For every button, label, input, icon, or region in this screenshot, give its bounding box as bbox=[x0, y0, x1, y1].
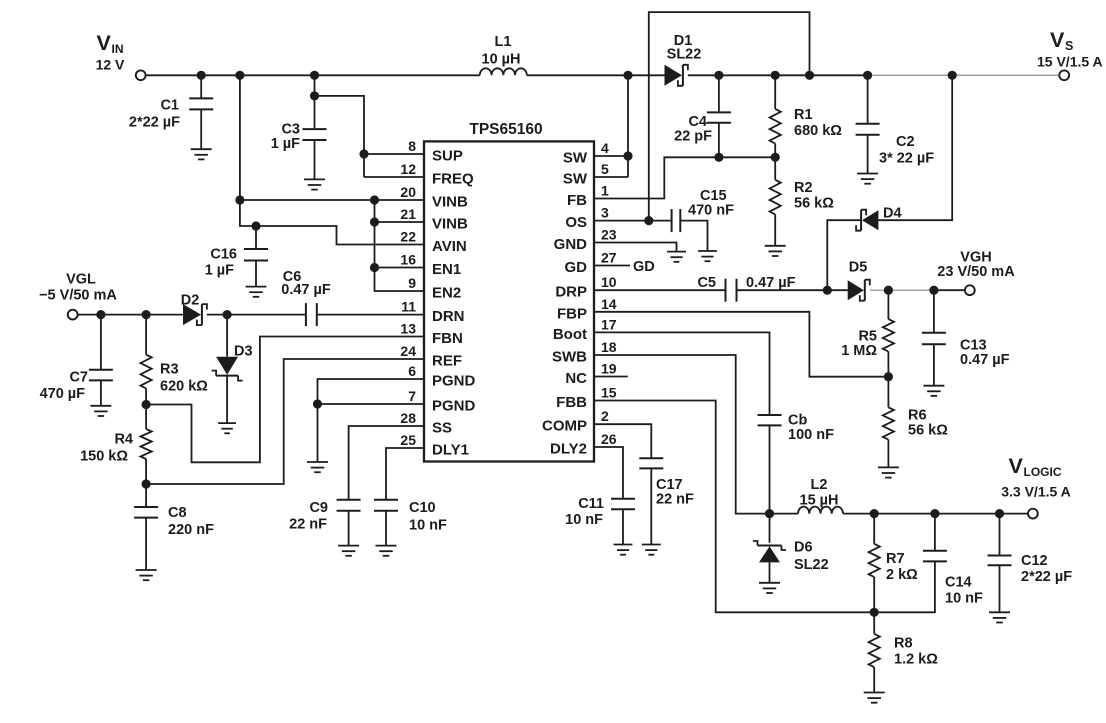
svg-text:15: 15 bbox=[601, 385, 617, 401]
diode D6 SL22 bbox=[753, 514, 829, 583]
wire DRP pin 10 to C5 bbox=[594, 289, 726, 291]
svg-text:DLY2: DLY2 bbox=[550, 441, 587, 458]
svg-text:FB: FB bbox=[567, 192, 587, 209]
ground under D3 bbox=[218, 423, 236, 433]
svg-text:10 µH: 10 µH bbox=[482, 52, 521, 68]
diode D3 bbox=[212, 315, 253, 424]
svg-text:9: 9 bbox=[408, 275, 416, 291]
svg-text:22 nF: 22 nF bbox=[656, 492, 694, 508]
wire D5 to VGH (gray segment) bbox=[870, 286, 965, 295]
resistor R7 bbox=[869, 514, 919, 613]
wire OS pin 3 to C15 bbox=[594, 216, 672, 225]
wire SS pin 28 to C9 bbox=[349, 426, 424, 500]
svg-text:10 nF: 10 nF bbox=[945, 591, 983, 607]
svg-text:12 V: 12 V bbox=[96, 56, 125, 72]
svg-text:DRN: DRN bbox=[432, 308, 465, 325]
svg-text:18: 18 bbox=[601, 339, 617, 355]
svg-text:TPS65160: TPS65160 bbox=[469, 121, 542, 138]
svg-text:V: V bbox=[1009, 454, 1024, 478]
svg-text:SL22: SL22 bbox=[794, 557, 829, 573]
svg-text:21: 21 bbox=[400, 206, 416, 222]
svg-text:D5: D5 bbox=[849, 260, 868, 276]
svg-text:15 µH: 15 µH bbox=[800, 493, 839, 509]
capacitor C2 bbox=[856, 75, 935, 173]
svg-text:L2: L2 bbox=[811, 477, 828, 493]
svg-text:SW: SW bbox=[563, 150, 588, 167]
svg-text:DLY1: DLY1 bbox=[432, 442, 469, 459]
diode D2 bbox=[181, 293, 207, 326]
ground under R2 bbox=[765, 246, 786, 256]
svg-text:NC: NC bbox=[565, 370, 587, 387]
ground under C11 bbox=[614, 545, 633, 555]
svg-text:150 kΩ: 150 kΩ bbox=[80, 449, 128, 465]
ground under PGND bbox=[307, 462, 328, 472]
node VLOGIC output terminal bbox=[1001, 454, 1071, 519]
wire Boot pin 17 to Cb bbox=[594, 332, 770, 415]
svg-text:15 V/1.5 A: 15 V/1.5 A bbox=[1037, 53, 1103, 69]
capacitor C16 bbox=[205, 226, 268, 287]
wire L2 to VLOGIC terminal bbox=[843, 509, 1028, 518]
pin NC stub bbox=[594, 376, 628, 378]
svg-text:2*22 µF: 2*22 µF bbox=[1021, 569, 1072, 585]
resistor R3 bbox=[141, 315, 209, 405]
svg-text:D2: D2 bbox=[181, 293, 200, 309]
ground under C15 bbox=[698, 251, 717, 261]
svg-text:7: 7 bbox=[408, 388, 416, 404]
wire SW pins to top rail bbox=[594, 75, 633, 177]
capacitor C5 bbox=[697, 275, 795, 302]
wire DLY2 pin 26 to C11 bbox=[594, 447, 623, 499]
capacitor C9 bbox=[289, 500, 360, 546]
svg-text:17: 17 bbox=[601, 316, 617, 332]
pin GD stub bbox=[594, 259, 655, 275]
svg-text:IN: IN bbox=[112, 42, 124, 56]
svg-text:28: 28 bbox=[400, 410, 416, 426]
wire top rail VIN to L1 bbox=[146, 74, 480, 76]
svg-text:R3: R3 bbox=[160, 362, 179, 378]
node R4/C8 junction bbox=[142, 479, 151, 488]
svg-text:16: 16 bbox=[400, 252, 416, 268]
svg-text:EN2: EN2 bbox=[432, 285, 461, 302]
svg-text:26: 26 bbox=[601, 431, 617, 447]
svg-text:GD: GD bbox=[565, 259, 588, 276]
svg-text:20: 20 bbox=[400, 184, 416, 200]
svg-text:11: 11 bbox=[401, 299, 416, 315]
wire FBB pin 15 to divider bbox=[594, 401, 935, 613]
svg-text:27: 27 bbox=[601, 250, 617, 266]
resistor R1 bbox=[770, 75, 843, 157]
wire top rail C2 node to Vs (gray) bbox=[868, 74, 1060, 76]
ground under pin 23 bbox=[667, 252, 686, 262]
svg-text:DRP: DRP bbox=[555, 284, 587, 301]
svg-text:1: 1 bbox=[601, 183, 609, 199]
svg-text:SS: SS bbox=[432, 420, 452, 437]
wire D4 to DRP node bbox=[827, 220, 861, 290]
capacitor C15 bbox=[672, 188, 734, 251]
wire C6 to DRN pin 11 bbox=[317, 314, 424, 316]
ground under D6 bbox=[759, 583, 780, 593]
svg-text:C11: C11 bbox=[578, 496, 604, 512]
diode D4 bbox=[856, 206, 901, 231]
svg-text:22 pF: 22 pF bbox=[674, 129, 712, 145]
svg-text:SW: SW bbox=[563, 171, 588, 188]
capacitor C6 bbox=[281, 269, 331, 326]
svg-text:C14: C14 bbox=[945, 575, 972, 591]
svg-text:PGND: PGND bbox=[432, 373, 476, 390]
resistor R2 bbox=[770, 157, 835, 246]
svg-text:1.2 kΩ: 1.2 kΩ bbox=[894, 652, 938, 668]
diode D5 SL22 bbox=[848, 260, 870, 301]
svg-text:5: 5 bbox=[601, 161, 609, 177]
svg-text:D4: D4 bbox=[883, 206, 902, 222]
capacitor C8 bbox=[134, 484, 214, 570]
svg-text:V: V bbox=[1050, 28, 1065, 52]
svg-text:D6: D6 bbox=[794, 540, 813, 556]
ground under C2 bbox=[857, 174, 878, 184]
svg-text:−5 V/50 mA: −5 V/50 mA bbox=[39, 288, 117, 304]
svg-text:0.47 µF: 0.47 µF bbox=[960, 352, 1010, 368]
svg-text:3.3 V/1.5 A: 3.3 V/1.5 A bbox=[1001, 484, 1071, 500]
capacitor C17 bbox=[639, 458, 694, 544]
svg-text:LOGIC: LOGIC bbox=[1024, 465, 1062, 479]
wire VIN branch to VINB/AVIN bbox=[235, 75, 424, 244]
wire SWB pin 18 to L2 bbox=[594, 355, 798, 518]
svg-text:8: 8 bbox=[408, 138, 416, 154]
svg-text:25: 25 bbox=[400, 432, 416, 448]
wire C3 branch to pins 8/12 bbox=[310, 75, 424, 177]
svg-text:22: 22 bbox=[400, 229, 416, 245]
wire DLY1 pin 25 to C10 bbox=[386, 448, 424, 500]
svg-text:22 nF: 22 nF bbox=[289, 517, 327, 533]
ground under R8 bbox=[864, 693, 885, 703]
svg-text:SWB: SWB bbox=[552, 349, 587, 366]
svg-text:680 kΩ: 680 kΩ bbox=[794, 123, 842, 139]
capacitor Cb bbox=[758, 413, 835, 514]
svg-text:6: 6 bbox=[408, 363, 416, 379]
node Vs output terminal bbox=[1037, 28, 1103, 80]
node VGH output terminal bbox=[937, 250, 1015, 296]
wire top rail L1 to D1 bbox=[527, 74, 665, 76]
svg-text:REF: REF bbox=[432, 353, 462, 370]
capacitor C14 bbox=[923, 514, 983, 607]
capacitor C11 bbox=[565, 496, 635, 545]
resistor R8 bbox=[869, 612, 939, 692]
svg-text:0.47 µF: 0.47 µF bbox=[746, 275, 796, 291]
op-amp U1 TPS65160 regulator IC bbox=[400, 121, 616, 462]
svg-text:R8: R8 bbox=[894, 636, 913, 652]
svg-text:D3: D3 bbox=[234, 344, 253, 360]
resistor R6 bbox=[883, 377, 948, 468]
wire VGL line to D2 bbox=[78, 310, 183, 319]
svg-text:3* 22 µF: 3* 22 µF bbox=[879, 151, 934, 167]
svg-text:56 kΩ: 56 kΩ bbox=[908, 423, 948, 439]
svg-text:FBB: FBB bbox=[556, 394, 587, 411]
svg-text:R1: R1 bbox=[794, 107, 813, 123]
svg-text:13: 13 bbox=[400, 321, 416, 337]
svg-text:COMP: COMP bbox=[542, 418, 587, 435]
svg-text:2: 2 bbox=[601, 408, 609, 424]
svg-text:23 V/50 mA: 23 V/50 mA bbox=[937, 264, 1015, 280]
ground under C16 bbox=[246, 287, 267, 297]
capacitor C10 bbox=[374, 500, 447, 546]
svg-text:1 µF: 1 µF bbox=[205, 263, 234, 279]
capacitor C13 bbox=[922, 290, 1010, 386]
node R3/R4 junction bbox=[142, 400, 151, 409]
capacitor C4 bbox=[674, 75, 731, 157]
svg-text:100 nF: 100 nF bbox=[788, 427, 834, 443]
diode D1 SL22 bbox=[665, 33, 702, 86]
svg-text:12: 12 bbox=[400, 161, 416, 177]
resistor R5 bbox=[841, 290, 894, 377]
svg-text:10: 10 bbox=[601, 274, 617, 290]
wire top rail D1 to C2 node bbox=[688, 74, 868, 76]
capacitor C7 bbox=[40, 315, 113, 406]
wire FB to R1/R2 divider bbox=[594, 153, 780, 199]
svg-text:FBP: FBP bbox=[557, 305, 587, 322]
svg-text:C8: C8 bbox=[168, 505, 187, 521]
wire OS sense loop over D1 bbox=[649, 12, 810, 221]
wire Vs branch to D4 bbox=[878, 75, 952, 220]
svg-text:FREQ: FREQ bbox=[432, 171, 474, 188]
wire PGND pins to ground bbox=[313, 379, 424, 462]
svg-text:10 nF: 10 nF bbox=[409, 518, 447, 534]
svg-text:3: 3 bbox=[601, 205, 609, 221]
svg-text:10 nF: 10 nF bbox=[565, 512, 603, 528]
svg-text:620 kΩ: 620 kΩ bbox=[160, 379, 208, 395]
svg-text:GND: GND bbox=[554, 236, 588, 253]
svg-text:56 kΩ: 56 kΩ bbox=[794, 196, 834, 212]
svg-text:470 µF: 470 µF bbox=[40, 386, 86, 402]
ground under C10 bbox=[376, 546, 397, 556]
svg-text:R6: R6 bbox=[908, 408, 927, 424]
svg-text:24: 24 bbox=[400, 343, 416, 359]
ground under C3 bbox=[304, 179, 325, 189]
capacitor C3 bbox=[271, 122, 327, 180]
ground under C7 bbox=[90, 406, 111, 416]
node R7/R8 junction bbox=[870, 608, 879, 617]
svg-text:VINB: VINB bbox=[432, 194, 468, 211]
svg-text:SUP: SUP bbox=[432, 148, 463, 165]
svg-text:OS: OS bbox=[565, 214, 587, 231]
ground under C1 bbox=[191, 149, 212, 159]
node VIN input terminal bbox=[96, 31, 146, 80]
svg-text:470 nF: 470 nF bbox=[688, 203, 734, 219]
ground under C9 bbox=[338, 546, 359, 556]
wire D2 to C6 bbox=[207, 310, 306, 319]
svg-text:R2: R2 bbox=[794, 180, 813, 196]
wire FBP pin 14 to divider bbox=[594, 312, 893, 382]
svg-text:C9: C9 bbox=[309, 500, 328, 516]
resistor R4 bbox=[80, 405, 152, 485]
svg-text:SL22: SL22 bbox=[667, 47, 702, 63]
svg-text:2 kΩ: 2 kΩ bbox=[886, 567, 918, 583]
node VGL output terminal bbox=[39, 272, 117, 320]
svg-text:4: 4 bbox=[601, 140, 609, 156]
ground under R6 bbox=[878, 467, 899, 477]
svg-text:VINB: VINB bbox=[432, 216, 468, 233]
svg-text:C10: C10 bbox=[409, 500, 436, 516]
svg-text:23: 23 bbox=[601, 227, 617, 243]
inductor L1 bbox=[480, 34, 527, 75]
svg-text:C1: C1 bbox=[160, 98, 179, 114]
ground under C12 bbox=[989, 612, 1010, 622]
svg-text:GD: GD bbox=[633, 259, 655, 275]
wire REF to R4 bottom bbox=[146, 359, 424, 484]
wire COMP pin 2 to C17 bbox=[594, 424, 651, 458]
svg-text:0.47 µF: 0.47 µF bbox=[281, 282, 331, 298]
svg-text:19: 19 bbox=[601, 361, 617, 377]
svg-text:1 MΩ: 1 MΩ bbox=[841, 343, 877, 359]
svg-text:AVIN: AVIN bbox=[432, 238, 467, 255]
svg-text:Boot: Boot bbox=[553, 326, 587, 343]
ground under C8 bbox=[136, 570, 157, 580]
svg-text:2*22 µF: 2*22 µF bbox=[129, 115, 180, 131]
inductor L2 bbox=[798, 477, 843, 514]
svg-text:S: S bbox=[1065, 39, 1073, 53]
svg-text:L1: L1 bbox=[495, 34, 512, 50]
svg-text:PGND: PGND bbox=[432, 398, 476, 415]
svg-text:C7: C7 bbox=[69, 370, 88, 386]
ground under C13 bbox=[923, 386, 944, 396]
capacitor C1 bbox=[129, 75, 213, 149]
svg-text:220 nF: 220 nF bbox=[168, 522, 214, 538]
svg-text:R4: R4 bbox=[114, 432, 133, 448]
wire GND pin 23 to ground bbox=[594, 243, 677, 252]
svg-text:EN1: EN1 bbox=[432, 261, 461, 278]
ground under C17 bbox=[642, 545, 661, 555]
wire VINB21/EN1/EN2 bus bbox=[370, 195, 424, 291]
svg-text:V: V bbox=[97, 31, 112, 55]
capacitor C12 bbox=[988, 514, 1073, 613]
svg-text:C5: C5 bbox=[697, 275, 716, 291]
svg-text:C2: C2 bbox=[896, 134, 915, 150]
svg-text:C16: C16 bbox=[210, 247, 237, 263]
svg-text:14: 14 bbox=[601, 296, 617, 312]
junction dots on top rail bbox=[197, 71, 957, 80]
wire FBN feedback bbox=[146, 337, 424, 463]
svg-text:1 µF: 1 µF bbox=[271, 136, 300, 152]
svg-text:R7: R7 bbox=[886, 551, 905, 567]
svg-text:VGL: VGL bbox=[66, 272, 96, 288]
svg-text:FBN: FBN bbox=[432, 330, 463, 347]
svg-text:C12: C12 bbox=[1021, 553, 1048, 569]
wire C5 to D5 bbox=[737, 286, 848, 295]
